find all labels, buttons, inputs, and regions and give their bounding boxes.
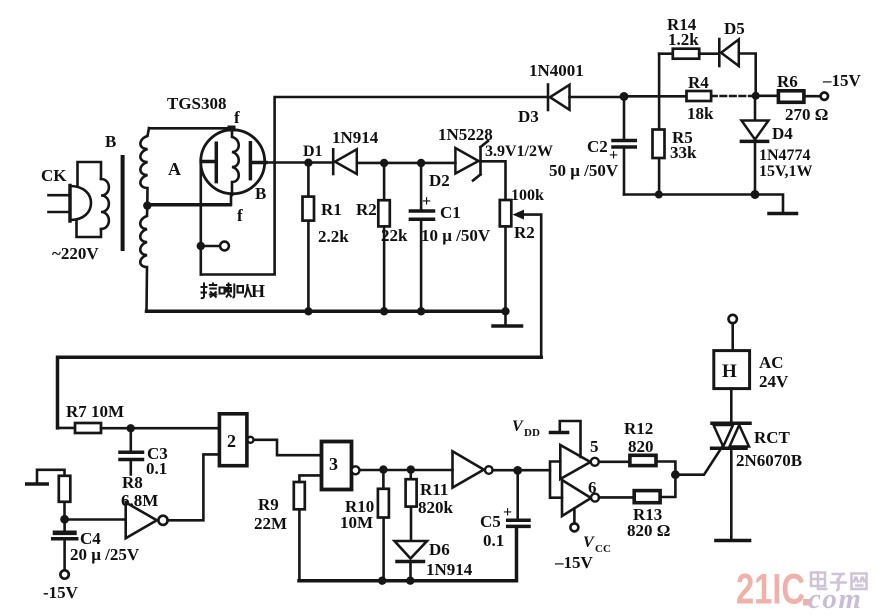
node R2 top (380, 159, 388, 167)
wire terminal to H box (731, 323, 734, 350)
svg-text:R8: R8 (122, 473, 143, 492)
wire buffer5 to R12 (599, 460, 630, 463)
ground bar (triac) (716, 539, 750, 543)
svg-text:0.1: 0.1 (146, 459, 167, 478)
wire VCC lead (573, 509, 576, 524)
wire buffer input fork (550, 462, 562, 498)
wire R12 to node G (656, 462, 675, 475)
diode D3 1N4001 (548, 85, 570, 111)
svg-text:100k: 100k (511, 187, 544, 204)
resistor R9 22M (294, 475, 322, 580)
resistor R10 10M (378, 470, 389, 581)
svg-text:+: + (503, 504, 512, 521)
wire tap to heater (thick) (147, 203, 230, 207)
svg-text:D2: D2 (429, 171, 450, 190)
diode D1 1N914 (333, 149, 357, 174)
svg-text:21IC: 21IC (736, 565, 805, 613)
terminal -15V top (821, 93, 828, 100)
svg-text:1N914: 1N914 (332, 128, 379, 147)
zener diode D2 1N5228 (455, 141, 488, 181)
wire buffer6 to R13 (599, 496, 634, 499)
wire bottom rail upper circuit (147, 310, 508, 314)
wire D2 to pot (481, 161, 506, 200)
svg-text:2: 2 (227, 431, 236, 451)
svg-text:22M: 22M (254, 514, 287, 533)
svg-text:D4: D4 (772, 124, 793, 143)
svg-text:H: H (251, 281, 265, 301)
terminal -15V (C4) (60, 570, 68, 578)
ground (upper circuit) (504, 311, 507, 324)
inverter U1 (126, 502, 168, 538)
wire feedback long line (58, 357, 542, 428)
svg-text:R2: R2 (514, 223, 535, 242)
svg-text:1N4001: 1N4001 (529, 61, 584, 80)
wire bottom rail (supply) (624, 195, 783, 212)
svg-text:15V,1W: 15V,1W (759, 163, 813, 180)
svg-text:1.2k: 1.2k (668, 30, 699, 49)
node C1 top (417, 159, 425, 167)
svg-text:R4: R4 (688, 73, 709, 92)
svg-text:RCT: RCT (754, 428, 791, 447)
wire gate2 out to gate3 (255, 440, 323, 455)
sensor left electrode (202, 143, 217, 181)
capacitor C4 (53, 519, 77, 570)
node R2 bottom (380, 307, 388, 315)
inverter U2 (453, 451, 493, 487)
wire N2 to R6 (756, 95, 779, 98)
node R5 bottom (655, 191, 663, 199)
svg-text:–15V: –15V (554, 553, 594, 572)
svg-text:6: 6 (588, 478, 597, 497)
wire H box to triac (730, 389, 733, 422)
node D6 bottom (406, 577, 414, 585)
svg-text:-15V: -15V (43, 583, 79, 602)
node R8/C4 (60, 515, 69, 524)
svg-text:D5: D5 (724, 19, 745, 38)
svg-text:DD: DD (524, 427, 540, 439)
wire R6 to terminal (804, 95, 820, 98)
watermark 电子网 (811, 571, 867, 590)
wire bottom rail (lower circuit) (299, 528, 517, 581)
svg-text:R12: R12 (624, 419, 653, 438)
node N1 (620, 92, 629, 101)
svg-text:D6: D6 (429, 540, 450, 559)
svg-text:270 Ω: 270 Ω (785, 105, 828, 124)
resistor R8 6.8M (59, 476, 71, 502)
svg-text:20 μ /25V: 20 μ /25V (70, 545, 140, 564)
transformer core B (121, 155, 125, 251)
wire D1 to D2 (357, 162, 456, 165)
node R7/C3 (127, 424, 135, 432)
wire top line to f (149, 127, 230, 130)
node R1 bottom (304, 307, 312, 315)
node pot bottom (501, 307, 509, 315)
potentiometer R2 100k (500, 200, 541, 357)
diode D5 (719, 39, 739, 66)
wire node to inverter U1 (65, 518, 126, 521)
sensor TGS308 body (201, 130, 265, 194)
svg-text:R9: R9 (258, 495, 279, 514)
svg-text:3.9V1/2W: 3.9V1/2W (485, 143, 553, 160)
svg-text:C2: C2 (587, 137, 608, 156)
svg-text:CK: CK (41, 166, 67, 185)
node secondary tap (143, 201, 151, 209)
svg-text:R1: R1 (321, 200, 342, 219)
terminal AC top (729, 315, 737, 323)
capacitor C3 (120, 428, 143, 474)
svg-text:f: f (237, 206, 243, 225)
wire R8 bottom (63, 502, 66, 519)
transformer secondary lower winding (140, 206, 147, 312)
node R11 top (407, 465, 415, 473)
svg-text:TGS308: TGS308 (167, 94, 227, 113)
svg-text:0.1: 0.1 (483, 531, 504, 550)
zener diode D4 1N4774 (741, 96, 768, 195)
wire gate lead to triac (675, 447, 722, 475)
svg-text:–15V: –15V (822, 71, 862, 90)
wire R14 branch vertical (658, 54, 661, 195)
svg-text:R6: R6 (777, 72, 798, 91)
resistor R4 18k (687, 91, 712, 101)
svg-text:1N914: 1N914 (426, 560, 473, 579)
svg-text:24V: 24V (759, 372, 789, 391)
power VDD symbol (560, 421, 581, 457)
svg-text:820k: 820k (418, 498, 454, 517)
gate 2 (219, 414, 253, 466)
watermark 21IC (736, 565, 805, 613)
svg-text:C1: C1 (440, 203, 461, 222)
capacitor C1 (410, 163, 433, 311)
wire left electrode vertical (200, 162, 203, 275)
node speaker tap (197, 242, 205, 250)
wire box right vertical (crossing) (201, 163, 275, 275)
svg-text:com: com (808, 583, 862, 615)
node C1 bottom (417, 307, 425, 315)
node R10 bottom (378, 577, 386, 585)
wire heater bottom lead (230, 194, 233, 205)
svg-text:V: V (512, 418, 524, 435)
svg-text:50 μ /50V: 50 μ /50V (549, 161, 619, 180)
resistor R2 22k (378, 163, 390, 311)
resistor R13 820ohm (634, 491, 660, 503)
buffer 5 (560, 445, 599, 479)
triac RCT 2N6070B (712, 423, 750, 538)
diode D6 1N914 (395, 541, 428, 581)
svg-text:33k: 33k (670, 143, 697, 162)
resistor R12 820 (630, 455, 656, 465)
probe terminal (R8 top) (37, 470, 65, 483)
svg-text:22k: 22k (381, 226, 408, 245)
svg-text:3: 3 (329, 454, 338, 474)
wire R13 to node G (660, 475, 675, 497)
wire R14 to D5 (699, 52, 719, 55)
svg-text:+: + (422, 193, 431, 210)
wire D3 to node N1 (570, 96, 625, 99)
node D4 bottom (751, 190, 760, 199)
node f top (228, 126, 236, 132)
svg-text:B: B (105, 132, 116, 151)
resistor R11 820k (406, 470, 417, 540)
svg-text:CC: CC (595, 543, 611, 555)
resistor R14 1.2k (673, 49, 699, 59)
node D1 junction (304, 159, 312, 167)
transformer secondary upper winding A (140, 128, 149, 206)
svg-text:R7 10M: R7 10M (66, 402, 124, 421)
resistor R5 33k (653, 130, 665, 159)
plug CK (49, 186, 92, 222)
svg-text:2N6070B: 2N6070B (736, 451, 802, 470)
svg-text:H: H (722, 361, 737, 382)
wire D5 to N2 top (739, 54, 756, 96)
wire R4 right dashed to N2 (711, 95, 756, 98)
svg-text:10M: 10M (340, 513, 373, 532)
capacitor C2 (613, 97, 635, 195)
transformer primary winding (101, 179, 109, 229)
capacitor C5 (508, 470, 529, 526)
svg-text:D1: D1 (303, 143, 323, 160)
svg-text:820: 820 (628, 437, 654, 456)
wire primary loop (77, 162, 102, 237)
svg-text:~220V: ~220V (52, 244, 99, 263)
svg-text:10 μ /50V: 10 μ /50V (421, 226, 491, 245)
svg-text:2.2k: 2.2k (318, 227, 349, 246)
sensor heater coil (232, 129, 239, 195)
svg-text:f: f (234, 108, 240, 127)
wire speaker stub (201, 245, 220, 248)
svg-text:C5: C5 (480, 512, 501, 531)
ground (supply) (769, 212, 797, 216)
gate 3 (322, 442, 360, 490)
svg-text:1N5228: 1N5228 (438, 125, 493, 144)
resistor R7 10M (58, 423, 220, 433)
svg-text:A: A (168, 159, 181, 179)
svg-text:V: V (583, 534, 595, 551)
wire U2 out to buffers (493, 469, 550, 472)
watermark dot (803, 599, 810, 606)
load H box (714, 351, 750, 389)
node G (gate) (671, 470, 680, 479)
terminal VCC (570, 523, 578, 531)
node N2 (752, 92, 760, 100)
sensor right electrode (250, 143, 266, 179)
svg-text:1N4774: 1N4774 (759, 147, 811, 164)
svg-text:R11: R11 (420, 480, 448, 499)
svg-text:5: 5 (590, 437, 599, 456)
svg-text:B: B (255, 184, 266, 203)
wire top line to D3 (275, 97, 548, 163)
svg-text:D3: D3 (518, 107, 539, 126)
svg-text:18k: 18k (687, 104, 714, 123)
wire N1 to R4 (624, 95, 687, 98)
terminal speaker (open circle) (220, 242, 229, 251)
node R10 top (379, 465, 387, 473)
label 接喇叭H (connect speaker H) (201, 283, 252, 299)
svg-text:AC: AC (759, 353, 784, 372)
resistor R6 270ohm (778, 91, 804, 103)
wire R14 branch top (659, 52, 673, 55)
svg-text:820 Ω: 820 Ω (627, 521, 670, 540)
buffer 6 (562, 480, 599, 516)
node C5 top (513, 466, 522, 475)
wire U1 out to gate 2 (168, 454, 220, 520)
svg-text:R2: R2 (356, 200, 377, 219)
resistor R1 (303, 163, 315, 312)
wire sensor output line (266, 161, 333, 164)
wire gate3 out line (360, 469, 453, 472)
